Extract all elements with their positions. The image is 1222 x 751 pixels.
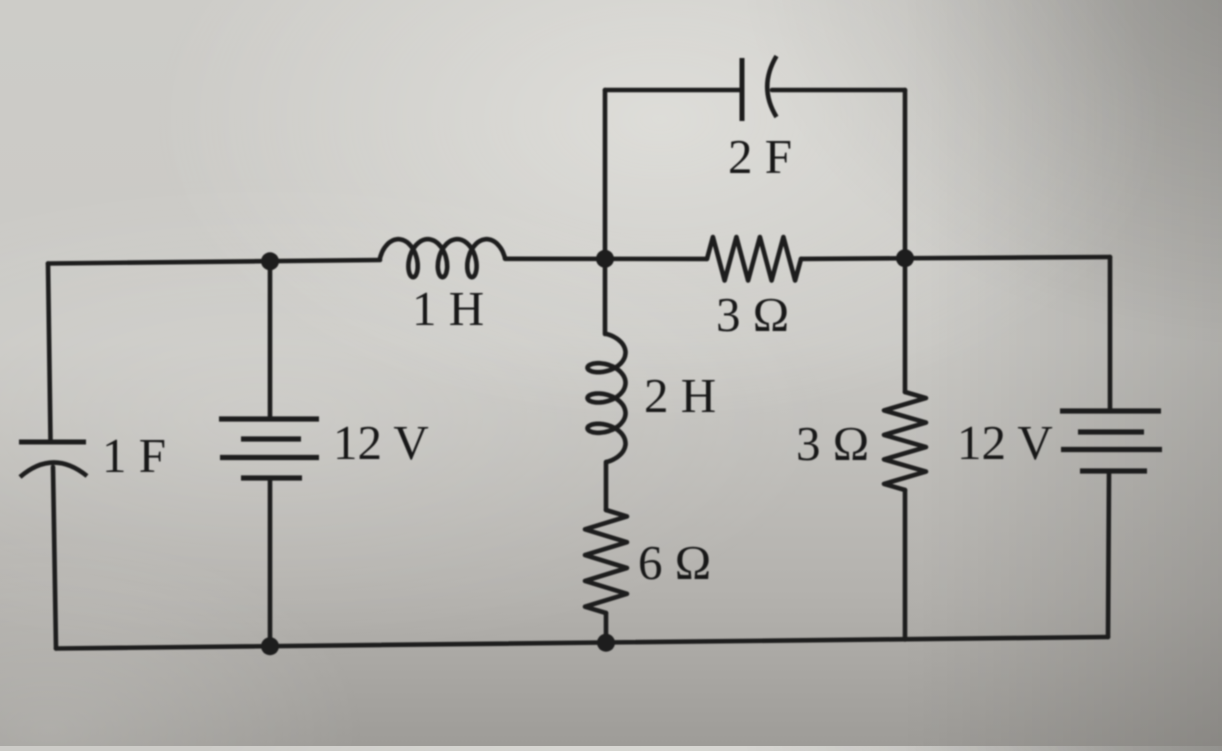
resistor R2 6-ohm	[585, 510, 627, 613]
capacitor C1 1F curved plate	[20, 462, 87, 477]
svg-text:3 Ω: 3 Ω	[796, 416, 869, 471]
svg-text:12 V: 12 V	[957, 415, 1053, 470]
battery B2 12V plate short bottom	[1080, 468, 1147, 473]
wire top loop right vertical	[903, 90, 908, 258]
battery B2 12V plate short	[1078, 429, 1144, 434]
svg-text:2 H: 2 H	[644, 368, 716, 423]
capacitor C1 1F flat plate	[19, 440, 86, 445]
svg-text:6 Ω: 6 Ω	[638, 535, 711, 590]
wire right edge lower	[1108, 473, 1109, 637]
wire bottom horizontal	[56, 637, 1108, 649]
svg-text:12 V: 12 V	[333, 415, 429, 470]
node top middle junction	[596, 250, 614, 268]
wire left edge lower	[53, 467, 56, 649]
wire left edge upper	[48, 264, 51, 441]
svg-text:1 H: 1 H	[412, 281, 484, 336]
wire top horizontal right segment	[801, 257, 1110, 259]
capacitor C2 2F curved plate	[767, 56, 776, 117]
battery B1 12V plate long top	[219, 416, 319, 421]
inductor L2 2H	[588, 334, 626, 462]
battery B1 12V plate short	[241, 436, 301, 441]
wire middle branch upper	[603, 259, 608, 334]
svg-text:3 Ω: 3 Ω	[716, 287, 789, 342]
svg-text:1 F: 1 F	[102, 428, 166, 483]
wire battery branch lower	[268, 480, 273, 646]
capacitor C2 2F flat plate	[740, 58, 745, 121]
battery B1 12V plate long	[220, 455, 319, 460]
inductor L1 1H	[380, 239, 505, 277]
wire battery branch upper	[268, 261, 273, 417]
wire top loop left vertical	[603, 90, 608, 259]
wire top horizontal left segment	[48, 260, 380, 264]
svg-text:2 F: 2 F	[728, 129, 792, 184]
node top right junction	[896, 249, 914, 267]
battery B1 12V plate short bottom	[241, 475, 302, 480]
wire right edge upper	[1108, 257, 1113, 409]
wire top loop upper-left segment	[605, 88, 740, 93]
wire 3-ohm branch upper	[903, 258, 908, 392]
wire top loop upper-right segment	[772, 88, 905, 93]
resistor R1 3-ohm top	[707, 237, 801, 281]
wire 3-ohm branch lower	[903, 490, 908, 640]
wire middle branch mid	[604, 462, 609, 510]
resistor R3 3-ohm right	[884, 392, 926, 490]
node top battery junction	[261, 252, 279, 270]
node bottom battery junction	[261, 637, 279, 655]
wire middle branch lower	[604, 613, 609, 643]
wire top horizontal middle segment	[505, 256, 707, 261]
battery B2 12V plate long	[1061, 447, 1162, 452]
node bottom middle junction	[597, 634, 615, 652]
battery B2 12V plate long top	[1060, 408, 1161, 413]
